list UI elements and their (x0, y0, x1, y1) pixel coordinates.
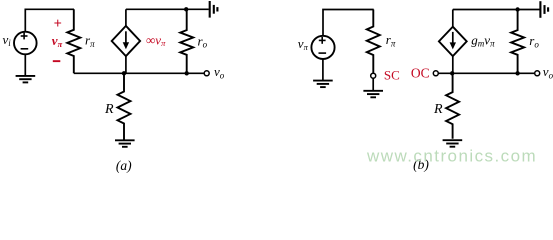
resistor R (b) (446, 73, 459, 139)
resistor r_pi (a) (67, 9, 80, 73)
svg-text:ro: ro (198, 33, 208, 49)
svg-text:OC: OC (411, 66, 430, 81)
wire diamond top stub (b) (452, 10, 454, 27)
wire top rail b: source to r_pi (323, 10, 374, 36)
voltage source v_pi (b) (311, 36, 334, 59)
OC terminal circle (b) (433, 71, 438, 76)
svg-text:vπ: vπ (298, 36, 309, 52)
wire top rail b right: diamond to ground (453, 9, 541, 11)
wire source bottom to ground (24, 54, 26, 75)
ground under R (b) (443, 140, 463, 147)
svg-text:vπ: vπ (52, 33, 63, 49)
wire source bottom to ground (b) (322, 59, 324, 80)
svg-text:gmvπ: gmvπ (471, 32, 495, 48)
junction dot mid left b (450, 71, 454, 75)
wire diamond bottom stub (b) (452, 56, 454, 73)
svg-text:vo: vo (214, 64, 225, 80)
svg-text:vo: vo (543, 64, 553, 80)
resistor r_pi (b) (367, 10, 380, 74)
svg-text:R: R (104, 102, 114, 117)
resistor r_o (a) (180, 9, 193, 73)
junction dot top a (184, 7, 188, 11)
junction dot mid right a (185, 71, 189, 75)
output terminal v_o (a) (204, 71, 209, 76)
SC terminal circle (b) (371, 73, 376, 78)
wire top rail a: source to r_pi (25, 9, 74, 31)
svg-text:+: + (54, 16, 62, 32)
wire diamond top stub (a) (125, 9, 127, 26)
ground under v_pi (b) (313, 81, 333, 88)
svg-text:∞vπ: ∞vπ (146, 32, 166, 48)
ground top right (b) (540, 1, 548, 18)
svg-text:rπ: rπ (386, 32, 396, 48)
ground under SC (363, 91, 383, 98)
ground top right (a) (210, 1, 218, 18)
junction dot top b (515, 7, 519, 11)
ground under R (a) (115, 140, 135, 147)
dependent source gm*v_pi (b) (439, 27, 467, 56)
voltage source v_i (14, 32, 37, 55)
svg-text:ro: ro (529, 33, 539, 49)
wire middle rail a (74, 72, 204, 74)
ground under v_i (16, 76, 36, 83)
svg-text:R: R (433, 102, 443, 117)
wire diamond bottom stub (a) (125, 56, 127, 73)
output terminal v_o (b) (535, 71, 540, 76)
dependent source infinity*v_pi (a) (112, 26, 140, 56)
svg-text:www.cntronics.com: www.cntronics.com (366, 147, 537, 166)
resistor r_o (b) (511, 10, 524, 74)
svg-text:(a): (a) (116, 158, 132, 173)
red minus of v_pi (53, 60, 61, 62)
svg-text:rπ: rπ (85, 33, 95, 49)
junction dot mid left a (122, 71, 126, 75)
resistor R (a) (118, 73, 131, 139)
wire SC circle to ground (372, 78, 374, 90)
svg-text:SC: SC (384, 68, 400, 83)
svg-text:vi: vi (3, 32, 12, 48)
wire middle rail b (438, 72, 534, 74)
junction dot mid right b (515, 71, 519, 75)
wire top rail a right: diamond to ground (126, 8, 209, 10)
